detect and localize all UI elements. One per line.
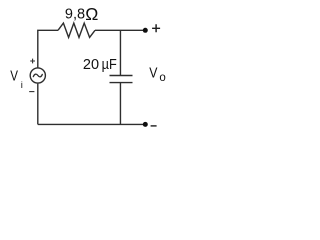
wire capacitor branch lower [119, 83, 121, 125]
svg-text:9,8: 9,8 [65, 7, 85, 23]
terminal dot bottom right [143, 122, 148, 127]
wire left vertical + top-left segment [38, 30, 58, 67]
terminal dot top right [143, 28, 148, 33]
source polarity plus [30, 59, 35, 64]
output plus sign [152, 24, 160, 32]
resistor R 9,8 ohm zigzag [58, 23, 95, 37]
svg-text:µF: µF [102, 56, 117, 72]
svg-text:V: V [149, 64, 158, 80]
source sine symbol [33, 74, 42, 77]
capacitor C bottom plate [110, 82, 133, 84]
wire bottom horizontal to - terminal [38, 123, 145, 125]
source V_i circle [30, 68, 45, 83]
wire source bottom vertical [37, 84, 39, 125]
svg-text:o: o [159, 72, 165, 84]
svg-text:Ω: Ω [85, 4, 98, 24]
wire capacitor branch upper [119, 30, 121, 75]
svg-text:V: V [10, 67, 18, 84]
wire top-right segment to + terminal [95, 29, 145, 31]
output minus sign [151, 125, 157, 127]
svg-text:i: i [21, 80, 23, 91]
source polarity minus [29, 91, 34, 93]
svg-text:20: 20 [83, 57, 99, 73]
capacitor C top plate [110, 75, 133, 77]
